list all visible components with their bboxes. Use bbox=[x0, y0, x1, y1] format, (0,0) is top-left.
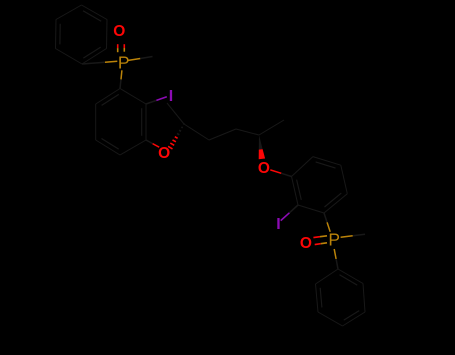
svg-text:O: O bbox=[113, 23, 125, 40]
svg-text:O: O bbox=[300, 235, 312, 252]
svg-text:I: I bbox=[169, 88, 173, 105]
svg-text:P: P bbox=[118, 53, 130, 73]
svg-text:P: P bbox=[328, 229, 340, 249]
svg-text:I: I bbox=[276, 216, 280, 233]
svg-text:O: O bbox=[158, 145, 170, 162]
svg-text:O: O bbox=[258, 160, 270, 177]
